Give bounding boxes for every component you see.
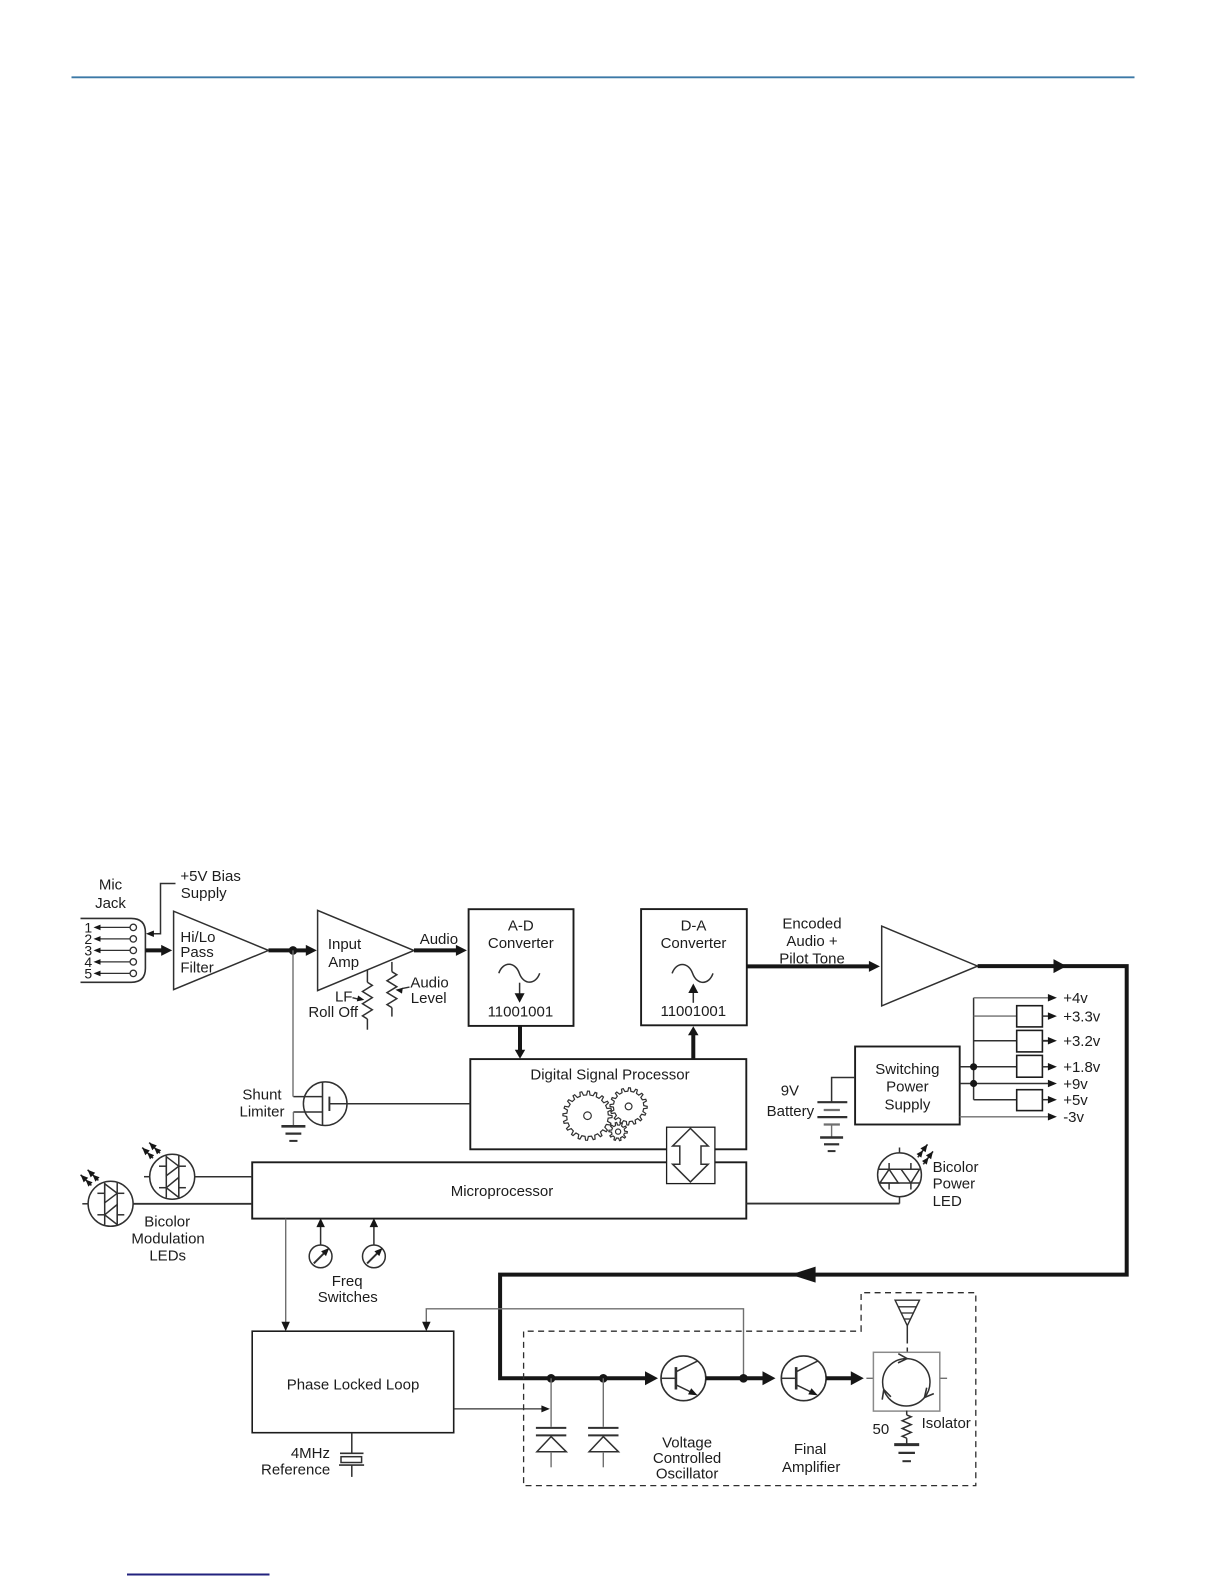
svg-text:Battery: Battery xyxy=(767,1103,815,1120)
wire microprocessor to PLL xyxy=(285,1219,287,1326)
svg-text:Limiter: Limiter xyxy=(239,1103,284,1120)
svg-text:+5V Bias: +5V Bias xyxy=(180,868,240,885)
sine symbol in A-D xyxy=(499,964,540,982)
wire battery to power supply xyxy=(832,1078,856,1103)
ground below load resistor xyxy=(894,1443,919,1446)
svg-text:Reference: Reference xyxy=(261,1462,330,1479)
wire isolator right stub xyxy=(940,1377,947,1379)
power bus vertical xyxy=(973,998,975,1100)
svg-text:Isolator: Isolator xyxy=(922,1415,971,1432)
wire audio node down to shunt limiter xyxy=(292,950,294,1096)
svg-text:5: 5 xyxy=(84,965,92,981)
ground below shunt limiter xyxy=(281,1125,305,1128)
junction varactor node 1 xyxy=(547,1374,556,1383)
svg-text:Converter: Converter xyxy=(488,935,554,952)
svg-text:Audio: Audio xyxy=(420,931,458,948)
svg-text:Switching: Switching xyxy=(875,1061,939,1078)
junction bus at +9v xyxy=(970,1080,977,1087)
resistor R3 50 ohm load xyxy=(902,1415,911,1438)
rail +3.2v with regulator xyxy=(974,1040,1017,1042)
svg-text:11001001: 11001001 xyxy=(660,1003,726,1020)
crystal Y1 4MHz xyxy=(351,1433,353,1454)
svg-text:Mic: Mic xyxy=(99,877,123,894)
svg-text:11001001: 11001001 xyxy=(488,1004,554,1021)
svg-text:Final: Final xyxy=(794,1441,827,1458)
svg-text:Bicolor: Bicolor xyxy=(933,1159,979,1176)
wire PLL tune output to varactors xyxy=(454,1408,544,1410)
antenna xyxy=(895,1300,919,1326)
svg-text:4MHz: 4MHz xyxy=(291,1445,330,1462)
emission arrows of LED D1 xyxy=(142,1148,153,1159)
block Digital Signal Processor xyxy=(470,1059,746,1149)
amplifier U1 Hi/Lo Pass Filter xyxy=(174,911,269,989)
transistor Q1 VCO xyxy=(661,1356,706,1401)
svg-text:Amplifier: Amplifier xyxy=(782,1459,840,1476)
amplifier U3 output amp xyxy=(882,926,978,1006)
arrowhead into VCO transistor xyxy=(645,1371,658,1385)
svg-text:-3v: -3v xyxy=(1063,1109,1084,1126)
amplifier U2 Input Amp xyxy=(318,910,414,990)
svg-text:+1.8v: +1.8v xyxy=(1063,1059,1101,1076)
svg-text:LED: LED xyxy=(933,1193,962,1210)
circulator arrow lower right xyxy=(925,1388,934,1398)
wire J1 to filter (thick arrow) xyxy=(145,948,163,952)
isolator U4 xyxy=(873,1352,939,1411)
svg-text:Power: Power xyxy=(933,1176,976,1193)
svg-text:+3.3v: +3.3v xyxy=(1063,1008,1101,1025)
junction bus at +1.8v xyxy=(970,1063,977,1070)
svg-text:+3.2v: +3.2v xyxy=(1063,1033,1101,1050)
transistor Q3 shunt limiter xyxy=(303,1082,347,1126)
svg-text:Input: Input xyxy=(328,936,362,953)
wire LED D2 to microprocessor xyxy=(133,1203,252,1205)
gear icon large in DSP xyxy=(563,1091,612,1140)
rail +9v xyxy=(960,1083,1051,1085)
svg-text:Roll Off: Roll Off xyxy=(308,1004,359,1021)
resistor R1 LF roll off xyxy=(366,970,368,982)
block A-D Converter xyxy=(469,909,574,1026)
down arrow in A-D xyxy=(519,983,521,996)
varactor D3 xyxy=(550,1378,552,1427)
svg-text:Phase Locked Loop: Phase Locked Loop xyxy=(287,1377,420,1394)
svg-text:Microprocessor: Microprocessor xyxy=(451,1183,554,1200)
block Phase Locked Loop xyxy=(252,1331,454,1433)
svg-text:Encoded: Encoded xyxy=(782,915,841,932)
block Microprocessor xyxy=(252,1162,746,1218)
svg-text:Bicolor: Bicolor xyxy=(144,1214,190,1231)
potentiometer R2 Audio Level xyxy=(391,962,393,972)
wire isolator to load resistor xyxy=(906,1411,908,1415)
wire S2 to microprocessor xyxy=(373,1225,375,1246)
LED D2 bicolor modulation xyxy=(88,1181,133,1226)
circulator arrow lower left xyxy=(882,1390,891,1400)
up arrow in D-A xyxy=(692,991,694,1003)
rail +4v xyxy=(974,997,1051,999)
svg-text:A-D: A-D xyxy=(508,918,534,935)
svg-text:Modulation: Modulation xyxy=(131,1230,204,1247)
wire DSP to D-A (thick arrow) xyxy=(691,1034,695,1060)
lead stub of LED D1 xyxy=(144,1176,150,1178)
gear icon small in DSP xyxy=(609,1123,627,1141)
rail -3v xyxy=(960,1116,1051,1118)
connector J1 mic jack body xyxy=(81,918,146,982)
svg-text:Level: Level xyxy=(411,990,447,1007)
block Switching Power Supply xyxy=(855,1047,960,1125)
block D-A Converter xyxy=(641,909,747,1025)
svg-text:Switches: Switches xyxy=(318,1289,378,1306)
wire VCO to final amp (thick) xyxy=(706,1376,740,1380)
svg-text:Power: Power xyxy=(886,1079,929,1096)
wire LED D1 to microprocessor xyxy=(195,1176,253,1178)
lead stub of LED D2 xyxy=(82,1203,88,1205)
svg-text:Supply: Supply xyxy=(181,885,227,902)
arrowhead on feedback path pointing left xyxy=(791,1267,816,1283)
gear icon medium in DSP xyxy=(610,1088,647,1125)
svg-text:D-A: D-A xyxy=(681,918,707,935)
wire stub into isolator xyxy=(866,1377,873,1379)
wire battery to ground xyxy=(831,1125,833,1138)
svg-text:Amp: Amp xyxy=(328,954,359,971)
wire thick feedback path to VCO xyxy=(500,966,1127,1378)
emission arrows of LED D5 xyxy=(918,1144,928,1157)
wire D-A to output amp (thick arrow) xyxy=(747,964,871,968)
rail +1.8v with regulator xyxy=(960,1066,1017,1068)
svg-text:Supply: Supply xyxy=(884,1097,930,1114)
wire +5V bias supply to J1 xyxy=(152,884,176,934)
wire antenna to isolator xyxy=(906,1326,908,1344)
svg-text:LF: LF xyxy=(335,989,353,1006)
varactor D4 xyxy=(602,1378,604,1427)
svg-text:Converter: Converter xyxy=(661,935,727,952)
svg-text:Shunt: Shunt xyxy=(242,1086,282,1103)
transistor Q2 final amplifier xyxy=(781,1356,826,1401)
svg-text:Oscillator: Oscillator xyxy=(656,1465,719,1482)
rail +3.3v with regulator xyxy=(974,1015,1017,1017)
svg-text:9V: 9V xyxy=(781,1083,799,1100)
wire input amp to A-D converter (thick arrow) xyxy=(414,948,458,952)
wire S1 to microprocessor xyxy=(320,1225,322,1246)
wire VCO output to PLL feedback xyxy=(426,1309,743,1379)
svg-text:Filter: Filter xyxy=(180,959,213,976)
switch S1 freq xyxy=(309,1245,332,1268)
data bus box between DSP and microprocessor xyxy=(667,1127,715,1183)
svg-text:+5v: +5v xyxy=(1063,1092,1088,1109)
footer rule xyxy=(127,1574,270,1576)
svg-text:Freq: Freq xyxy=(332,1273,363,1290)
LED D1 bicolor modulation xyxy=(150,1154,195,1199)
switch S2 freq xyxy=(363,1245,386,1268)
svg-text:Jack: Jack xyxy=(95,895,126,912)
sine symbol in D-A xyxy=(672,964,713,982)
battery BT1 9V xyxy=(817,1101,847,1103)
junction varactor node 2 xyxy=(599,1374,608,1383)
emission arrows of LED D2 xyxy=(81,1175,92,1186)
header rule xyxy=(72,76,1135,78)
junction audio node xyxy=(289,946,298,955)
wire shunt limiter to DSP xyxy=(329,1103,470,1105)
rail +5v with regulator xyxy=(974,1099,1017,1101)
wire filter output to input amp (thick) xyxy=(269,948,294,952)
wire A-D to DSP (thick arrow) xyxy=(518,1026,522,1052)
wire microprocessor to power LED xyxy=(746,1203,899,1205)
wire shunt limiter gate to ground xyxy=(292,1112,294,1126)
wire final amp to isolator (thick arrow) xyxy=(826,1376,852,1380)
data bus double arrow xyxy=(673,1128,709,1182)
svg-text:+9v: +9v xyxy=(1063,1076,1088,1093)
dashed enclosure VCO / final amplifier / isolator xyxy=(524,1293,976,1486)
svg-text:Audio: Audio xyxy=(410,975,448,992)
svg-text:Audio +: Audio + xyxy=(786,933,838,950)
svg-text:LEDs: LEDs xyxy=(149,1248,186,1265)
svg-text:+4v: +4v xyxy=(1063,990,1088,1007)
LED D5 bicolor power xyxy=(878,1153,922,1197)
svg-text:50: 50 xyxy=(873,1421,890,1438)
arrowhead on feedback path right xyxy=(1054,959,1067,973)
ground below battery xyxy=(820,1136,843,1139)
svg-text:Digital Signal Processor: Digital Signal Processor xyxy=(530,1067,689,1084)
junction VCO output node xyxy=(739,1374,748,1383)
circulator arrow top xyxy=(898,1354,907,1363)
